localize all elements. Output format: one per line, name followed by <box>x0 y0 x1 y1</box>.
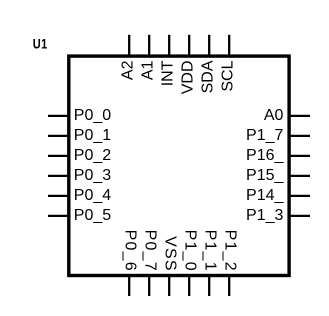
wire pin P0_7 (bottom) <box>148 276 150 297</box>
wire pin P1_3 (right) <box>289 215 310 217</box>
wire pin P1_0 (bottom) <box>188 276 190 297</box>
svg-text:SDA: SDA <box>200 60 217 93</box>
svg-text:P0_5: P0_5 <box>74 207 111 224</box>
svg-text:P14_: P14_ <box>246 187 284 204</box>
wire pin A0 (right) <box>289 115 310 117</box>
wire pin P1_2 (bottom) <box>228 276 230 297</box>
svg-text:P0_2: P0_2 <box>74 147 111 164</box>
svg-text:P0_3: P0_3 <box>74 167 111 184</box>
wire pin P0_4 (left) <box>48 195 69 197</box>
svg-text:P0_6: P0_6 <box>122 230 139 272</box>
svg-text:VDD: VDD <box>180 61 197 95</box>
svg-text:P16_: P16_ <box>246 147 284 164</box>
wire pin A1 (top) <box>148 35 150 56</box>
svg-text:SCL: SCL <box>220 60 237 91</box>
svg-text:P1_3: P1_3 <box>246 207 283 224</box>
svg-text:P1_7: P1_7 <box>246 127 283 144</box>
wire pin P0_5 (left) <box>48 215 69 217</box>
svg-text:P0_4: P0_4 <box>74 187 111 204</box>
svg-text:A0: A0 <box>264 107 284 124</box>
wire pin SDA (top) <box>208 35 210 56</box>
svg-text:P0_0: P0_0 <box>74 107 111 124</box>
wire pin VSS (bottom) <box>168 276 170 297</box>
svg-text:P1_0: P1_0 <box>182 230 199 272</box>
svg-text:P15_: P15_ <box>246 167 284 184</box>
wire pin P0_0 (left) <box>48 115 69 117</box>
wire pin A2 (top) <box>128 35 130 56</box>
svg-text:P0_7: P0_7 <box>142 230 159 272</box>
wire pin P0_2 (left) <box>48 155 69 157</box>
wire pin P15_ (right) <box>289 175 310 177</box>
wire pin P0_3 (left) <box>48 175 69 177</box>
wire pin P1_7 (right) <box>289 135 310 137</box>
svg-text:A1: A1 <box>140 60 157 80</box>
wire pin P16_ (right) <box>289 155 310 157</box>
wire pin VDD (top) <box>188 35 190 56</box>
wire pin SCL (top) <box>228 35 230 56</box>
IC body U1 <box>69 56 289 275</box>
wire pin P1_1 (bottom) <box>208 276 210 297</box>
wire pin P0_6 (bottom) <box>128 276 130 297</box>
svg-text:A2: A2 <box>120 60 137 80</box>
wire pin INT (top) <box>168 35 170 56</box>
wire pin P0_1 (left) <box>48 135 69 137</box>
svg-text:P1_2: P1_2 <box>222 230 239 272</box>
svg-text:U1: U1 <box>33 36 48 51</box>
svg-text:VSS: VSS <box>162 236 179 272</box>
svg-text:P1_1: P1_1 <box>202 230 219 272</box>
wire pin P14_ (right) <box>289 195 310 197</box>
svg-text:INT: INT <box>160 60 177 86</box>
svg-text:P0_1: P0_1 <box>74 127 111 144</box>
